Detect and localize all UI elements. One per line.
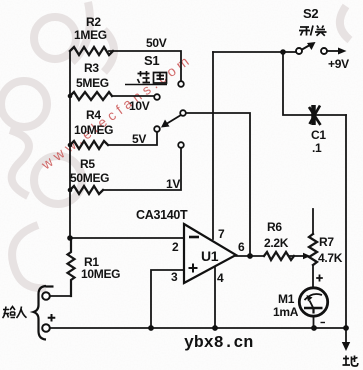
svg-text:C1: C1 xyxy=(311,128,326,142)
svg-text:ybx8.cn: ybx8.cn xyxy=(184,333,253,352)
svg-text:R2: R2 xyxy=(86,15,101,29)
junction dots xyxy=(68,94,73,99)
svg-text:S1: S1 xyxy=(144,53,159,68)
S1 underline xyxy=(125,84,167,86)
S1 terminal 50V xyxy=(178,81,184,87)
wire R6 to R7 wiper xyxy=(289,255,303,257)
svg-text:R3: R3 xyxy=(84,61,99,75)
resistor R2 xyxy=(70,47,113,55)
svg-text:R7: R7 xyxy=(319,235,334,249)
S1 wiper pivot xyxy=(180,110,186,116)
wire pin4 stem xyxy=(214,268,216,328)
capacitor C1 symbol xyxy=(309,105,321,125)
svg-text:7: 7 xyxy=(218,227,225,241)
input plus sign xyxy=(48,314,56,322)
svg-text:R6: R6 xyxy=(267,220,282,234)
resistor R5 xyxy=(70,186,103,194)
svg-text:5V: 5V xyxy=(132,132,146,146)
wire S2 branch xyxy=(283,51,296,53)
svg-text:10MEG: 10MEG xyxy=(81,267,120,281)
hanzi 输入 (input) xyxy=(3,307,27,319)
S1 terminal 1V xyxy=(178,142,184,148)
wire +9V lead xyxy=(327,50,338,52)
wire output to R6 xyxy=(236,255,264,257)
meter needle xyxy=(310,301,314,308)
svg-text:+9V: +9V xyxy=(328,57,349,71)
svg-text:2.2K: 2.2K xyxy=(264,236,289,250)
svg-text:R4: R4 xyxy=(86,108,101,122)
wire right ground rail xyxy=(345,115,347,328)
hanzi 开/关 (on/off) xyxy=(299,26,327,36)
wire bottom ground rail xyxy=(50,327,346,329)
svg-text:10V: 10V xyxy=(129,99,150,113)
op-amp U1 triangle xyxy=(184,224,236,283)
svg-text:3: 3 xyxy=(171,270,178,284)
resistor R7 rheostat element xyxy=(309,234,317,265)
wire +9V rail xyxy=(213,51,283,53)
svg-text:U1: U1 xyxy=(201,248,219,264)
svg-text:S2: S2 xyxy=(303,6,318,21)
S2 arm xyxy=(302,46,309,50)
svg-text:2: 2 xyxy=(172,240,179,254)
svg-text:M1: M1 xyxy=(278,292,295,306)
meter bar xyxy=(304,307,323,310)
svg-text:4: 4 xyxy=(217,271,224,285)
wire S1 wiper to feedback xyxy=(186,113,250,253)
svg-text:5MEG: 5MEG xyxy=(76,76,109,90)
switch S2 contacts xyxy=(296,48,302,54)
svg-text:R5: R5 xyxy=(80,157,95,171)
wire pin7 stem xyxy=(212,52,214,239)
meter minus tiny xyxy=(321,322,326,324)
svg-text:.1: .1 xyxy=(312,141,322,155)
wire meter to ground rail xyxy=(313,317,315,329)
S1 wiper arm xyxy=(167,115,181,124)
wire R7 top stub xyxy=(312,209,314,234)
meter scale arc xyxy=(305,294,323,300)
svg-text:6: 6 xyxy=(238,240,245,254)
wire R3 to 10V terminal xyxy=(112,95,154,97)
wire pin2 xyxy=(70,237,184,239)
svg-text:50V: 50V xyxy=(146,36,167,50)
wire R7 to meter xyxy=(312,266,314,287)
meter plus xyxy=(316,275,323,282)
input plus terminal xyxy=(42,324,50,332)
svg-text:CA3140T: CA3140T xyxy=(136,208,188,222)
S1 terminal 5V xyxy=(154,126,160,132)
svg-text:1V: 1V xyxy=(166,177,180,191)
ground arrow xyxy=(342,342,350,351)
svg-text:1MEG: 1MEG xyxy=(74,28,107,42)
wire R5 to 1V terminal xyxy=(103,148,181,190)
op-amp plus sign xyxy=(189,264,198,273)
S1 terminal 10V xyxy=(154,94,160,100)
svg-text:4.7K: 4.7K xyxy=(318,251,343,265)
resistor R3 xyxy=(70,92,112,100)
wire left rail xyxy=(69,51,71,238)
resistor R6 xyxy=(264,252,294,260)
meter M1 circle xyxy=(299,288,327,316)
svg-text:10MEG: 10MEG xyxy=(74,123,113,137)
red watermark www.elecfans.com diagonal xyxy=(37,51,195,173)
hanzi 范围 (range) xyxy=(138,71,167,83)
wire pin3 xyxy=(151,270,184,328)
input minus sign xyxy=(46,285,54,287)
svg-text:1mA: 1mA xyxy=(273,305,299,319)
hanzi 地 (ground) xyxy=(343,356,358,367)
svg-text:50MEG: 50MEG xyxy=(70,171,109,185)
resistor R4 xyxy=(70,141,108,149)
resistor R1 xyxy=(68,238,75,296)
wire ground lead xyxy=(345,328,347,343)
wire R2 to 50V terminal xyxy=(109,51,181,81)
op-amp minus sign xyxy=(189,236,199,239)
wire C1 branch xyxy=(283,52,346,115)
gray watermark background swirls xyxy=(1,2,350,288)
R7 wiper arrowhead xyxy=(303,253,311,259)
input minus terminal xyxy=(42,292,50,300)
wire R1 to minus input xyxy=(50,295,71,297)
input brace xyxy=(34,286,47,340)
wire R4 to 5V terminal xyxy=(108,132,157,145)
